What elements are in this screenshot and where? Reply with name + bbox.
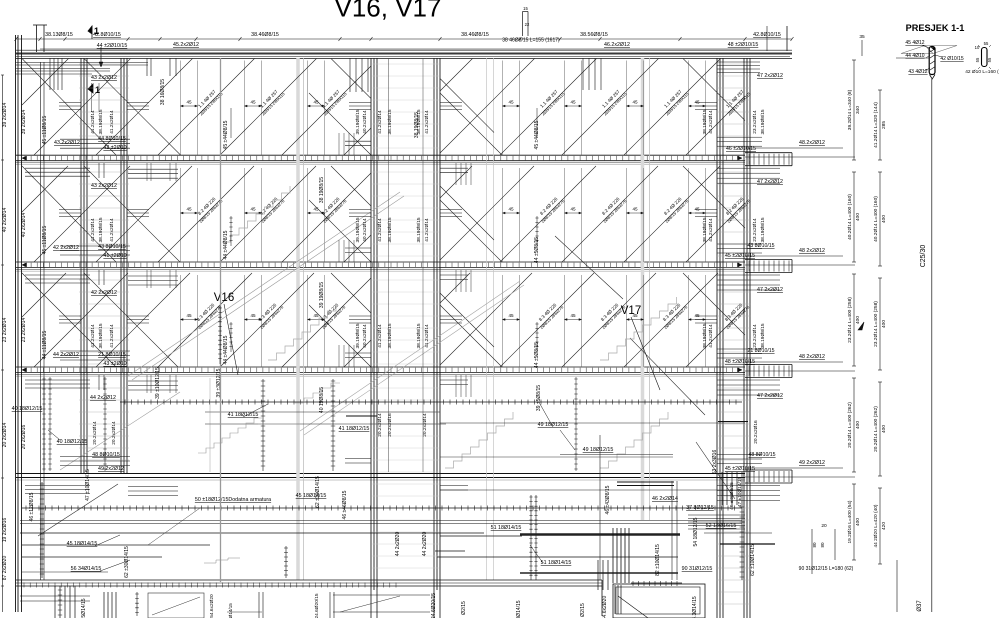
svg-text:43 8Ø10/15: 43 8Ø10/15 [98,244,126,250]
horizontal bundle 52 near right column [688,515,745,529]
splice tick chains x=231 and x=537 [230,108,232,138]
leader 44±2Ø10/15 to column [100,47,102,66]
story 2 reverse diagonals near supports [22,166,745,262]
rebar line y=508 with ticks (dodatna armatura) [22,507,742,509]
stair steps story2 left [222,186,290,242]
left column ties [79,64,129,460]
svg-text:41.2x2Ø14: 41.2x2Ø14 [90,110,96,134]
svg-text:39 2x2Ø14: 39 2x2Ø14 [2,103,8,128]
svg-text:45: 45 [570,100,576,105]
top joint verticals left column [50,58,62,90]
story4 vertical x=600 [599,435,601,580]
svg-text:80: 80 [820,542,825,548]
vertical rebar chains story4 [43,377,45,471]
svg-text:45: 45 [313,313,319,318]
svg-text:44 ±5Ø8/15: 44 ±5Ø8/15 [534,342,540,368]
small step outline y=560 [204,558,240,563]
bottom middle short line y=612 [227,611,262,613]
foundation box bottom right [613,584,705,618]
beam band level 3 end anchors [22,368,742,372]
svg-text:V16, V17: V16, V17 [335,0,442,23]
svg-text:47 2x2Ø12: 47 2x2Ø12 [757,287,783,293]
svg-text:45: 45 [508,100,514,105]
svg-text:56 34Ø14/15: 56 34Ø14/15 [71,566,102,572]
svg-text:41.2x2Ø14: 41.2x2Ø14 [424,110,430,134]
svg-text:21 8Ø10/15: 21 8Ø10/15 [98,352,126,358]
svg-text:53 2x3Ø16: 53 2x3Ø16 [712,450,718,475]
svg-text:20.2Ø14 L=400 (262): 20.2Ø14 L=400 (262) [873,406,879,452]
svg-text:40.2x2Ø14: 40.2x2Ø14 [362,110,368,134]
svg-text:41.2x2Ø14: 41.2x2Ø14 [708,218,714,242]
story5 left diagonal [38,484,118,536]
svg-text:40 19Ø8/15: 40 19Ø8/15 [319,387,325,413]
top hanging bar pairs [147,58,176,76]
foundation vertical bars cluster [615,585,621,614]
beam band level 3 chords [16,366,745,368]
gray section line x=220 [220,58,222,582]
story 1 diagonals right half [440,59,745,156]
bottom middle verticals [259,592,334,618]
svg-text:38.56Ø8/15: 38.56Ø8/15 [580,32,608,38]
svg-text:41.2x2Ø14: 41.2x2Ø14 [708,324,714,348]
panel V16 interior vertical pairs [180,61,182,156]
svg-text:43 ±2Ø10: 43 ±2Ø10 [103,361,126,367]
svg-text:62 ±30Ø14/15: 62 ±30Ø14/15 [124,546,130,578]
stair steps story3 left [268,304,336,360]
leader line V16 [224,304,238,375]
svg-text:23 2x2Ø14: 23 2x2Ø14 [2,318,8,343]
anchorage bars pier level 1 [345,141,371,146]
vertical tick chain x=286 story5 [285,546,287,578]
svg-text:10: 10 [975,45,980,50]
svg-text:49 2x2Ø12: 49 2x2Ø12 [98,466,124,472]
anchorage bars left column level 1 [60,139,130,148]
svg-text:23.2x2Ø14: 23.2x2Ø14 [21,318,27,343]
beam level 2 right end box [745,259,792,261]
svg-text:400: 400 [881,320,887,328]
svg-text:39 ±10Ø12/15: 39 ±10Ø12/15 [155,367,161,399]
svg-text:Ø2/15: Ø2/15 [461,601,467,615]
svg-text:37 8Ø12/15: 37 8Ø12/15 [686,505,714,511]
bottom step vertical [601,580,603,616]
svg-text:45: 45 [694,313,700,318]
svg-text:49 18Ø12/15: 49 18Ø12/15 [583,447,614,453]
svg-text:43 2x2Ø12: 43 2x2Ø12 [91,183,117,189]
beam band level 2 chords [16,261,745,263]
svg-text:38.19Ø8/15: 38.19Ø8/15 [702,323,708,348]
svg-text:82 ±10Ø14/15: 82 ±10Ø14/15 [655,544,661,576]
dark bar right of column y=544 [720,543,775,545]
right column face lines [716,58,718,618]
svg-text:38.19Ø8/15: 38.19Ø8/15 [702,109,708,134]
left wall edge lines [15,35,17,612]
section vertical line [931,79,933,612]
svg-text:41.2x2Ø14: 41.2x2Ø14 [109,110,115,134]
svg-text:41 18Ø12/15: 41 18Ø12/15 [228,412,259,418]
svg-text:39.19Ø8/15: 39.19Ø8/15 [355,217,361,242]
svg-text:52 18Ø16/15: 52 18Ø16/15 [706,523,737,529]
top-left corner anchorage bars [16,63,148,66]
leader line V17 [631,317,660,390]
axis line A (gray) [296,58,300,580]
svg-text:45: 45 [694,100,700,105]
bar 46 2x2Ø14 above label [617,481,674,483]
svg-text:51 18Ø14/15: 51 18Ø14/15 [541,560,572,566]
svg-text:41.2x2Ø14: 41.2x2Ø14 [424,218,430,242]
section wall bar (hatched) [929,47,935,75]
svg-text:46 ±2Ø10/15: 46 ±2Ø10/15 [726,146,756,152]
story4 segment left of pier [346,415,377,417]
stair steps story4 right [600,412,668,468]
anchorage bars right column level 2 [717,244,762,253]
middle pier face lines [370,58,372,590]
section slab parallelogram [901,46,957,54]
svg-text:47 ±10Ø14/15: 47 ±10Ø14/15 [737,476,743,507]
extra crossing diagonal story2 right [555,236,705,415]
svg-text:38.19Ø8/15: 38.19Ø8/15 [416,323,422,348]
right margin short vertical bottom [896,560,898,612]
svg-text:40.2Ø14 L=400 (160): 40.2Ø14 L=400 (160) [847,194,853,240]
tick chain x=137 below band [136,592,138,616]
svg-text:23.2x2Ø14: 23.2x2Ø14 [752,324,758,348]
svg-text:23.2x2Ø14: 23.2x2Ø14 [752,110,758,134]
story4 staircase descending [198,418,262,453]
svg-text:45.2x2Ø12: 45.2x2Ø12 [173,42,199,48]
top joint verticals near pier [350,58,368,92]
svg-text:38.19Ø8/15: 38.19Ø8/15 [98,323,104,348]
svg-text:340: 340 [855,106,861,114]
svg-text:38.19Ø8/15: 38.19Ø8/15 [387,109,393,134]
svg-text:39 2x2Ø14: 39 2x2Ø14 [21,110,27,135]
svg-text:19.2Ø16 L=400 (54): 19.2Ø16 L=400 (54) [847,500,853,543]
svg-text:40 18Ø12/15: 40 18Ø12/15 [12,406,43,412]
panel V17 interior vertical pairs [502,61,504,156]
svg-text:42 Ø10/15: 42 Ø10/15 [940,56,964,62]
top joint verticals right of pier [583,58,601,90]
svg-text:44 2Ø20 L=420 (40): 44 2Ø20 L=420 (40) [873,504,879,547]
mid-story bundles flanking pier and columns [349,103,371,110]
svg-text:1: 1 [94,26,99,36]
svg-text:44 ±44Ø8/15: 44 ±44Ø8/15 [223,230,229,259]
svg-text:3Ø14/15: 3Ø14/15 [516,600,522,618]
beam band level 3 stirrup ticks [25,368,739,372]
svg-text:47 2x2Ø12: 47 2x2Ø12 [757,393,783,399]
svg-text:38.19Ø8/15: 38.19Ø8/15 [98,217,104,242]
svg-text:41.2x2Ø14: 41.2x2Ø14 [377,110,383,134]
top right short dim vertical [766,26,768,51]
story5 horizontals left [22,544,210,546]
label box verticals below 43 2x2Ø12 [91,83,93,112]
story 1 spacing labels 45 [181,105,198,107]
beam band level 1 chords [16,154,745,156]
svg-text:41.2x2Ø14: 41.2x2Ø14 [708,110,714,134]
anchorage bars left column level 3 [60,351,130,360]
anchorage bars pier level 3 [345,353,371,358]
svg-text:42 ±2Ø10: 42 ±2Ø10 [103,145,126,151]
svg-text:90 31Ø12/15: 90 31Ø12/15 [682,566,713,572]
svg-text:38.13Ø8/15: 38.13Ø8/15 [45,32,73,38]
svg-text:87 2x2Ø20: 87 2x2Ø20 [2,556,8,581]
svg-text:45 ±2Ø10/15: 45 ±2Ø10/15 [725,253,755,259]
svg-text:43 4Ø12: 43 4Ø12 [908,69,927,75]
svg-text:V16: V16 [214,292,234,304]
svg-text:23.2Ø14 L=400 (258): 23.2Ø14 L=400 (258) [847,297,853,343]
svg-text:48 ±2Ø10/15: 48 ±2Ø10/15 [725,359,755,365]
svg-text:45 ±11Ø8/15: 45 ±11Ø8/15 [42,226,48,255]
svg-text:51 18Ø14/15: 51 18Ø14/15 [491,525,522,531]
story5 right-half line y=490 [440,489,742,491]
beam extension right edge vertical [786,26,788,51]
thick bar y=535 [440,535,522,537]
svg-text:80: 80 [812,542,817,548]
reverse diagonal story4 right [696,442,735,499]
svg-text:44 2x2Ø20: 44 2x2Ø20 [422,532,428,557]
top dimension line row 2 [40,48,750,50]
svg-text:20 2x2Ø14: 20 2x2Ø14 [2,423,8,448]
svg-text:Ø2/15: Ø2/15 [580,603,586,617]
svg-text:45 ±11Ø8/15: 45 ±11Ø8/15 [42,116,48,145]
svg-text:5Ø14/15: 5Ø14/15 [228,603,233,618]
svg-text:38.46Ø8/15: 38.46Ø8/15 [251,32,279,38]
right column ties [716,64,751,604]
svg-text:38 46Ø8/15 L=155 (1617): 38 46Ø8/15 L=155 (1617) [502,38,560,44]
story 3 reverse diagonals near supports [22,273,745,367]
svg-text:43 2x2Ø12: 43 2x2Ø12 [91,75,117,81]
top-center dim detail 15/22 [522,12,524,37]
svg-text:400: 400 [855,316,861,324]
vertical rebar chain x=42 story5 [41,482,43,578]
svg-text:46 ±46Ø8/15: 46 ±46Ø8/15 [342,490,348,519]
small bracket detail right-bottom [811,529,813,574]
svg-text:20.2x2Ø14: 20.2x2Ø14 [111,421,117,445]
beam level 4 right end box [745,469,792,471]
anchorage bars right column level 1 [717,137,762,146]
svg-text:38.46Ø8/15: 38.46Ø8/15 [461,32,489,38]
svg-text:38.19Ø8/15: 38.19Ø8/15 [98,109,104,134]
story 3 diagonals right half [440,273,745,367]
bottom edge band left (ticked) [16,579,602,581]
anchorage bars pier level 2 [345,248,371,253]
svg-text:38.19Ø8/15: 38.19Ø8/15 [760,323,766,348]
svg-text:48 8Ø10/15: 48 8Ø10/15 [92,452,120,458]
svg-text:45: 45 [508,313,514,318]
stair steps story2 right [600,297,677,360]
svg-text:43 2x2Ø12: 43 2x2Ø12 [54,140,80,146]
svg-text:22: 22 [525,22,530,27]
lap splice verticals at bands [339,133,354,155]
vertical rebar chain pair x=531,536 story5 [530,495,532,580]
svg-text:47 2x2Ø12: 47 2x2Ø12 [757,179,783,185]
wall top edge line [16,49,792,51]
svg-text:48 ±2Ø10/15: 48 ±2Ø10/15 [728,42,759,48]
svg-text:42 Ø10 L=160 (: 42 Ø10 L=160 ( [965,69,999,75]
svg-text:20.2Ø14 L=400 (262): 20.2Ø14 L=400 (262) [847,402,853,448]
svg-text:Ø37: Ø37 [917,600,923,612]
svg-text:45 ±44Ø8/15: 45 ±44Ø8/15 [223,120,229,149]
svg-text:49 2x2Ø12: 49 2x2Ø12 [799,460,825,466]
beam level 3 right end box [745,364,792,366]
svg-text:90 31Ø12/15 L=180 (62): 90 31Ø12/15 L=180 (62) [799,566,854,572]
svg-text:44 2x2Ø20: 44 2x2Ø20 [395,532,401,557]
wall top edge thick chord [16,53,792,55]
svg-text:38 19Ø8/15: 38 19Ø8/15 [414,112,420,138]
svg-text:38.19Ø8/15: 38.19Ø8/15 [760,217,766,242]
bottom mid-right horizontals [333,594,430,596]
svg-text:285: 285 [881,121,887,129]
svg-text:45: 45 [186,207,192,212]
svg-text:48.2x2Ø12: 48.2x2Ø12 [799,140,825,146]
beam band level 1 stirrup ticks [25,156,739,160]
svg-text:23.2x2Ø14: 23.2x2Ø14 [752,218,758,242]
svg-text:41 18Ø12/15: 41 18Ø12/15 [339,426,370,432]
story 2 diagonals right half [440,166,745,262]
svg-text:46 ±43Ø8/15: 46 ±43Ø8/15 [605,485,611,514]
anchorage bars left column level 2 [60,246,130,255]
svg-text:54 18Ø12/15: 54 18Ø12/15 [693,517,699,546]
svg-text:20.2x2Ø16: 20.2x2Ø16 [387,413,393,437]
svg-text:41.2x2Ø14: 41.2x2Ø14 [377,218,383,242]
svg-text:38.19Ø8/15: 38.19Ø8/15 [702,217,708,242]
svg-text:45: 45 [508,207,514,212]
svg-text:39 ±5Ø8/15: 39 ±5Ø8/15 [536,385,542,411]
svg-text:43 8Ø10/15: 43 8Ø10/15 [747,243,774,249]
story 1 reverse diagonals near supports [22,59,745,156]
svg-text:41.2x2Ø14: 41.2x2Ø14 [109,324,115,348]
svg-text:44 ±11Ø8/15: 44 ±11Ø8/15 [42,331,48,360]
svg-text:45 ±44Ø8/15: 45 ±44Ø8/15 [534,120,540,149]
svg-text:47 2x2Ø12: 47 2x2Ø12 [757,73,783,79]
svg-text:20.2x2Ø14: 20.2x2Ø14 [92,421,98,445]
top dimension line row 1 [16,38,792,40]
vertical rebar chain x=742 story5 [741,505,743,580]
beam band level 1 end anchors [22,156,742,160]
foundation ticked top line [631,582,682,584]
story 3 spacing labels 45 [181,319,198,321]
svg-text:44 ±44Ø8/15: 44 ±44Ø8/15 [223,335,229,364]
right column lap verticals at band4 [722,472,742,505]
svg-text:48 2x2Ø12: 48 2x2Ø12 [799,248,825,254]
beam band level 2 stirrup ticks [25,263,739,267]
svg-text:20.2x2Ø16: 20.2x2Ø16 [753,420,759,444]
bottom-left horizontals [20,595,90,597]
below-band verticals x104-116 [104,592,116,618]
svg-text:40.2Ø14 L=400 (160): 40.2Ø14 L=400 (160) [873,196,879,242]
svg-text:45: 45 [313,207,319,212]
right column top anchorage bars [717,62,760,73]
svg-text:47 ±10Ø14/15: 47 ±10Ø14/15 [85,469,91,501]
svg-text:44 8Ø10/15: 44 8Ø10/15 [98,136,126,142]
stair steps story4 mid [445,412,513,468]
story4 line y=423 right half [440,422,745,424]
svg-text:45: 45 [250,100,256,105]
story4 thin vertical x=210 [209,378,211,472]
svg-text:420: 420 [881,522,887,530]
story4 tick chains x=263,333 [262,379,264,471]
dim 35 top right [861,40,863,56]
svg-text:39.19Ø8/15: 39.19Ø8/15 [355,109,361,134]
svg-text:C25/30: C25/30 [920,245,927,268]
svg-text:40 18Ø12/15: 40 18Ø12/15 [57,439,88,445]
left inner edge pair [40,62,42,580]
right dimension chain 1 [853,60,855,160]
svg-text:41.2Ø14 L=320 (144): 41.2Ø14 L=320 (144) [873,102,879,148]
svg-text:39.2Ø14 L=340 (8): 39.2Ø14 L=340 (8) [847,89,853,130]
svg-text:41 ±2Ø10: 41 ±2Ø10 [103,253,126,259]
below-band small rect and diagonal [148,593,204,618]
svg-text:400: 400 [855,421,861,429]
svg-text:44 ±5Ø8/15: 44 ±5Ø8/15 [534,237,540,263]
svg-text:23.2Ø14 L=400 (258): 23.2Ø14 L=400 (258) [873,301,879,347]
svg-text:44 2x2Ø12: 44 2x2Ø12 [90,395,116,401]
svg-text:400: 400 [855,518,861,526]
svg-text:38.19Ø8/15: 38.19Ø8/15 [387,323,393,348]
svg-text:62 ±30Ø14/15: 62 ±30Ø14/15 [315,476,321,508]
svg-text:24.6Ø20/15: 24.6Ø20/15 [314,593,320,618]
svg-text:55: 55 [975,57,980,62]
svg-text:45 18Ø14/15: 45 18Ø14/15 [67,541,98,547]
svg-text:55: 55 [984,41,989,46]
second dark bar y=573 [520,572,678,574]
section bar bottom taper [930,75,936,80]
svg-text:400: 400 [881,425,887,433]
svg-text:20: 20 [821,523,827,529]
bottom-left below-band verticals [55,586,75,618]
left outer dimension line [2,75,4,612]
axis line C (gray) [486,58,488,580]
middle pier ties [372,64,439,580]
svg-text:39 19Ø8/15: 39 19Ø8/15 [319,282,325,308]
stair stringer long lines [128,192,404,380]
anchorage bars left column level 4 [60,457,130,466]
svg-text:45 18Ø14/15: 45 18Ø14/15 [296,493,327,499]
anchorage bars pier level 4 [345,459,371,464]
svg-text:40 2x2Ø14: 40 2x2Ø14 [2,208,8,233]
svg-text:44 2x2Ø12: 44 2x2Ø12 [53,352,79,358]
svg-text:38.19Ø8/15: 38.19Ø8/15 [416,217,422,242]
svg-text:20 2x2Ø16: 20 2x2Ø16 [21,425,27,450]
anchorage bars right column level 3 [717,349,762,358]
right dimension chain 2 [879,90,881,160]
svg-text:400: 400 [881,215,887,223]
svg-text:45: 45 [632,207,638,212]
svg-text:PRESJEK 1-1: PRESJEK 1-1 [906,23,965,33]
svg-text:45: 45 [694,207,700,212]
svg-text:19 2x2Ø16: 19 2x2Ø16 [2,518,8,543]
svg-text:40 2x2Ø14: 40 2x2Ø14 [21,213,27,238]
svg-text:24.6Ø20/15: 24.6Ø20/15 [431,593,437,618]
svg-text:40.2x2Ø14: 40.2x2Ø14 [362,218,368,242]
svg-text:45: 45 [186,313,192,318]
wall top edge bottom line [16,58,792,60]
pier interior thin verticals [388,58,390,472]
wall top edge inner line [16,56,790,58]
short bundle y=551 near pier [435,550,465,552]
svg-text:45: 45 [570,207,576,212]
left column face lines [80,58,82,474]
svg-text:V17: V17 [621,305,641,317]
svg-text:39.19Ø8/15: 39.19Ø8/15 [355,323,361,348]
svg-text:54.6x2Ø20: 54.6x2Ø20 [209,594,215,618]
story 2 diagonals left half [22,166,371,262]
story 1 diagonals left half [22,59,371,156]
story 3 diagonals left half [22,273,371,367]
pier base extension verticals [370,590,372,618]
beam band level 2 end anchors [22,263,742,267]
svg-text:48 8Ø10/15: 48 8Ø10/15 [748,452,775,458]
svg-text:42 2x2Ø12: 42 2x2Ø12 [91,290,117,296]
top-left thickness dim stub [36,25,38,52]
arrow mark right [858,322,864,330]
